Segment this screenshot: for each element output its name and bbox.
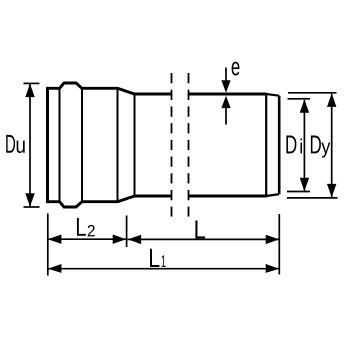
- L dimension line: [128, 238, 280, 240]
- L left arrowhead: [128, 235, 142, 244]
- L1 right arrowhead: [266, 264, 280, 273]
- label L2: [77, 218, 95, 236]
- right extension line: [278, 214, 280, 275]
- spigot end face left edge: [265, 93, 267, 197]
- L2 dimension line: [48, 238, 127, 240]
- spigot end right edge: [278, 96, 281, 194]
- Dy dimension line: [331, 94, 333, 197]
- Du dimension line: [29, 84, 31, 207]
- middle extension line: [126, 216, 128, 248]
- Di top arrowhead: [300, 99, 309, 113]
- gasket housing right edge: [81, 88, 83, 201]
- Du top tick: [24, 82, 40, 84]
- socket mouth edge: [46, 87, 49, 203]
- L2 left arrowhead: [48, 235, 62, 244]
- Du top arrowhead: [25, 84, 34, 98]
- e upper arrow shaft: [225, 68, 227, 83]
- Di dimension line: [303, 100, 305, 191]
- Di bottom arrowhead: [300, 178, 309, 192]
- Dy bottom extension line: [287, 197, 338, 199]
- label L: [195, 221, 205, 239]
- pipe bottom contour (socket to break): [48, 196, 171, 207]
- L right arrowhead: [266, 235, 280, 244]
- Di bottom tick: [287, 191, 310, 193]
- pipe bottom line (break to end): [189, 195, 267, 198]
- label Du: [6, 135, 25, 153]
- label L1: [150, 249, 166, 267]
- socket mouth ring line: [59, 88, 61, 201]
- taper end line: [134, 94, 136, 196]
- label e: [232, 62, 240, 76]
- e lower arrow shaft: [225, 107, 227, 125]
- e lower arrowhead: [221, 96, 230, 109]
- e upper arrowhead: [221, 80, 230, 93]
- Di top tick: [288, 98, 311, 100]
- pipe top contour (socket to break): [48, 83, 171, 94]
- L1 dimension line: [48, 268, 279, 270]
- Dy top extension line: [288, 92, 337, 94]
- label Di: [286, 136, 302, 154]
- spigot end chamfer bottom: [266, 194, 279, 196]
- Dy top arrowhead: [327, 93, 336, 107]
- Du bottom tick: [24, 206, 40, 208]
- break line right (dashed): [188, 73, 190, 217]
- break line left (dashed): [171, 73, 173, 217]
- spigot end chamfer top: [266, 94, 279, 96]
- Du bottom arrowhead: [25, 193, 34, 207]
- Dy bottom arrowhead: [327, 184, 336, 198]
- left extension line: [47, 214, 49, 276]
- L2 right arrowhead: [113, 235, 127, 244]
- taper start line: [117, 88, 119, 201]
- label Dy: [311, 136, 330, 158]
- L1 left arrowhead: [48, 264, 62, 273]
- pipe top line (break to end): [189, 93, 267, 96]
